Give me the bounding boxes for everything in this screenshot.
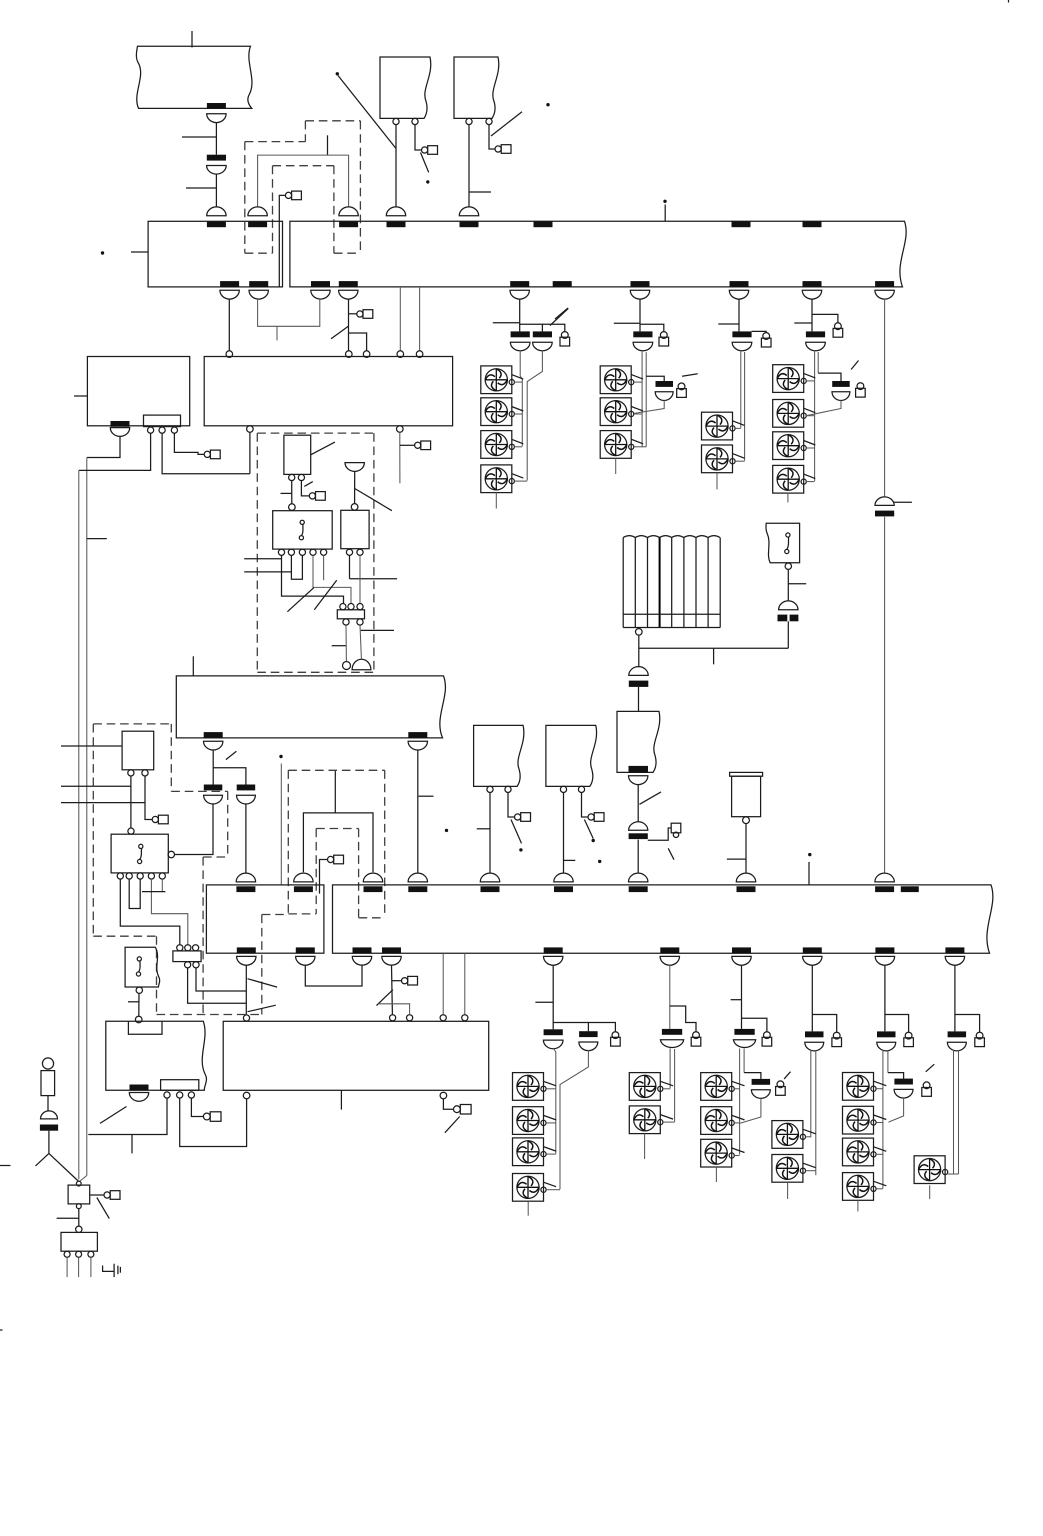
branch to F4 operator [812,314,838,322]
annotation dot near T2 [546,103,549,106]
wire terminal t3 to operator [174,433,204,454]
wire SW2 to MCC2 [138,993,140,1016]
condenser fan M9-1 [843,1073,874,1101]
wire F1b to operator [145,776,152,820]
annotation slash on P1b wire [304,482,313,487]
padlocked operator B5 [905,1032,912,1039]
padlocked operator F4c [857,383,864,390]
drawout boundary (inner) around bus tie [273,165,334,167]
coil bank lower header line [623,613,720,615]
sub-feeder branch F2c [646,376,664,381]
mid-line breaker on tie line [875,497,894,506]
wire 2b to BUS3 breaker [245,803,247,873]
transformer source box T4 (torn edge) [546,725,597,786]
motor operator T3 [515,814,521,820]
branch to operator on t2 wire [400,444,415,446]
branch to F2 operator [640,324,664,331]
box L terminal 2 [76,1251,82,1257]
condenser fan M4-2 [773,400,804,428]
W1 bottom terminal [785,563,791,569]
fan M3-1 connector [735,427,741,429]
fan M2-3 leader slash [631,439,643,444]
fuse-switch F3 [732,331,751,337]
wire T3 to BUS3 [489,793,491,873]
tick on T4 drop [564,859,576,861]
fan M5-3 leader slash [543,1147,556,1152]
transformer source box T3 (torn edge) [474,725,524,786]
incoming breaker of G1 on BUS1 [207,207,226,216]
wire feeder 0b to MCC2 [391,965,394,1014]
wire inside BUS2-BUS3 corridor [280,764,282,885]
padlocked operator B1 [612,1032,619,1039]
bus-tie breaker B on BUS1B [339,207,358,216]
fan M8-1 leader slash [803,1129,816,1134]
wire T2 to BUS1 [468,125,470,208]
SW1 bottom terminal 5 [159,873,165,879]
MCC2 terminal t2 [390,1015,396,1021]
motor operator on MCC1 t2 wire [415,442,421,448]
wire SW1-5 stub [161,879,163,892]
terminal strip t3 [171,427,177,433]
fan M3-1 leader slash [733,421,745,426]
condenser fan M7-3 [701,1139,732,1167]
isolating link on coil outlet [629,681,649,687]
annotation leader B3c [784,1072,790,1079]
fuse-switch F2c [656,381,674,387]
switch box SW2 (torn right edge) [125,947,160,987]
MCC2 bottom terminal left [243,1092,250,1099]
margin tick left 2 [0,1329,3,1331]
TB2 top terminal 2 [185,945,191,951]
padlocked operator F3 [763,333,770,340]
feeder breaker BUS3B bottom 0b [382,947,401,953]
relay box P2 [273,511,333,549]
wire strip t1 to rail [88,1098,167,1134]
wire P3 to drawout contact [354,472,356,504]
tick on T3 drop [477,828,490,830]
stub below fan bank B1 [527,1201,529,1216]
wire F1a to switch box SW1 [130,776,132,828]
fan M8-2 connector [806,1170,816,1172]
motor operator of T1 breaker [422,147,428,153]
fuse-switch F1a [511,331,530,337]
fuse-switch B6 [948,1031,967,1037]
tick mark on T2 drop [469,191,491,193]
TB1 bottom terminal 1 [343,619,349,625]
fan M4-4 connector [806,481,815,483]
tick into enclosure lower [244,571,291,573]
tick left of P2 terminal [281,492,292,494]
fuse-switch B5 [877,1031,896,1037]
terminal of T2 (right) [486,118,492,124]
auxiliary panel AUX2 (torn right edge) [106,1021,207,1090]
terminal MCC1 bottom t2 [397,426,404,433]
fan M9-2 leader slash [874,1115,887,1120]
annotation leader below T1 operator [421,153,429,173]
annotation dot above BUS3 stub [808,853,811,856]
annotation leader b [248,1005,276,1012]
feeder breaker BUS2 right [408,732,427,738]
annotation leader a [248,979,278,987]
wire F3 feeder [738,299,740,332]
transformer source box E1 (torn edge) [617,711,660,772]
branch to B2 operator [670,1006,696,1032]
P3 bottom terminal 2 [357,549,363,555]
annotation slash box K [97,1198,110,1219]
annotation slash A [287,588,313,612]
padlocked operator B4 [833,1032,840,1039]
tick into enclosure upper [244,558,281,560]
padlocked operator F2 [660,332,667,339]
T4 terminal left [560,786,566,792]
wire P1b to operator [301,481,309,496]
P2 bottom terminal 4 [310,549,316,555]
incoming breaker T4 on BUS3 [554,873,573,882]
fan M8-2 leader slash [803,1163,816,1168]
stub below fan bank B5 [857,1200,859,1211]
stub below fan bank F2 [615,458,617,474]
condenser fan M4-3 [773,432,804,460]
branch to B6 operator [955,1015,980,1033]
MCC2 terminal from feeder1 [243,1015,249,1021]
annotation slash on feeder 0b [377,990,393,1006]
TB1 bottom terminal 2 [357,619,363,625]
condenser fan M1-1 [481,366,512,394]
feeder breaker BUS3B for fan bank B5 [875,947,894,953]
tick right through enclosure [350,578,398,580]
AUX2 strip terminal 2 [177,1092,183,1098]
terminal strip t2 [159,427,165,433]
terminal MCC1 top t5 [416,351,423,358]
T3 terminal left [487,786,493,792]
wire BUS1B feeder2 to MCC1 [348,299,350,351]
trunk wires B4 [810,1050,812,1137]
wire T3 operator branch [508,793,515,818]
branch to padlock operator E1 [648,828,671,840]
motor operator on feeder2 [357,311,363,317]
trunk wire F1b down [527,350,542,480]
lower bus-tie link [303,813,373,872]
incoming breaker from BUS2 right on BUS3B [408,873,427,882]
SW2 bottom terminal [136,987,142,993]
wire T2 auxiliary to operator [489,125,495,149]
feeder breaker BUS3A bottom 2 [296,947,315,953]
condenser fan M5-2 [513,1107,544,1135]
wire strip t2 to MCC2 bottom [180,1098,247,1146]
fan M5-4 connector [546,1189,560,1191]
fan M7-2 connector [734,1122,739,1124]
switchgear BUS3 section B (torn right edge) [333,885,993,953]
fan M1-1 connector [514,381,522,383]
stub below fan bank F1 [495,493,497,509]
terminal MCC1 bottom t1 [247,426,254,433]
fan M4-2 connector [806,415,815,417]
P3 bottom terminal 1 [346,549,352,555]
TB2 top terminal 3 [193,945,199,951]
operator lead on feeder 0b [392,980,402,982]
MCC2 left top terminal [135,1016,142,1023]
tie line wire lower [884,517,886,873]
wire TB2-2 link [196,968,246,991]
control cabinet boundary (dashed) left [93,723,171,725]
wire incoming stub to utility source G1 [191,31,193,48]
drawout contact below E1 [629,776,648,785]
loop wire P2-2 P2-3 [291,555,302,579]
feeder breaker BUS1B for tie line [875,281,894,287]
fuse-switch B1b [579,1031,598,1037]
wire T4 to BUS3 [563,793,565,873]
trunk wire B1a [553,1048,556,1154]
earthing switch box K [68,1185,90,1204]
feeder breaker BUS1A bottom 2 [249,281,268,287]
wire P2-5 stub [323,555,325,580]
wire left chain down [48,1131,50,1154]
annotation dot T4 [592,839,595,842]
condenser fan M4-4 [773,465,804,493]
annotation dot above stub [663,200,666,203]
terminal MCC1 top t2 [346,351,353,358]
trunk wires B6 [953,1050,955,1174]
feeder breaker BUS3B for fan bank B6 [945,947,964,953]
feeder breaker BUS1B for fan bank F4 [803,281,822,287]
incoming breaker from BUS2 left on BUS3A [236,873,255,882]
wire F1 feeder [519,299,521,332]
lower tie stub [276,326,278,340]
terminal block TB1 [337,610,364,619]
feeder breaker BUS3B for fan bank B3 [732,947,751,953]
fuse-switch B2 [662,1029,682,1035]
trunk wires B2 [669,1048,671,1088]
trunk wire F1a down [520,350,522,446]
fan M5-1 leader slash [543,1081,556,1086]
feeder breaker BUS2 left [204,732,223,738]
branch to terminal t3 [349,333,367,351]
TB2 bottom terminal 1 [185,962,191,968]
drawout contact left chain [41,1111,58,1119]
incoming breaker of T2 on BUS1 [459,207,478,216]
fan M4-1 connector [806,380,815,382]
wire BUS2 right feeder to BUS3 [417,750,419,873]
stub below rail link [131,1135,133,1154]
wire AUX1 breaker to rail R2 [87,436,120,457]
trunk wires B3 [739,1049,741,1155]
wire TB1-2 to BUS2 contact [360,625,361,659]
annotation slash F1b [550,308,568,325]
condenser fan M8-2 [772,1155,803,1183]
wire BUS3B to MCC2 t5 [464,953,466,1014]
distribution board BUS2 (torn right edge) [176,676,445,738]
feeder breaker BUS3B for fan bank B2 [660,947,679,953]
terminal strip under AUX2 [161,1080,199,1091]
padlocked operator B5c [923,1082,930,1089]
fan M9-1 connector [876,1088,883,1090]
box L terminal 3 [88,1251,94,1257]
condenser fan M2-3 [600,431,631,459]
wire F4c to fan M4-2 [806,400,841,415]
wire L2 down [78,1257,80,1277]
condenser fan M1-4 [481,465,512,493]
SW1 bottom terminal 3 [137,873,143,879]
wire box K to box L [78,1209,80,1226]
fan M9-2 connector [876,1122,883,1124]
AUX2 strip terminal 1 [164,1092,170,1098]
annotation slash below AUX2 breaker [100,1107,127,1124]
annotation leader T3 [511,820,522,844]
TB1 top terminal 2 [348,604,354,610]
transformer source box T1 [380,57,431,118]
box L top terminal [76,1226,82,1232]
wire G1 drop lower [215,174,217,207]
AUX2 strip terminal 3 [188,1092,194,1098]
annotation leader F4c [851,361,858,370]
condenser fan M3-2 [702,445,733,473]
tick on F4 feeder [794,322,812,324]
control transformer box P1 [284,435,311,474]
feeder breaker BUS3B for fan bank B1 [544,947,563,953]
tick left of BUS2 entry [332,645,347,647]
wire BUS3A feeder1 to MCC2 [245,965,247,1014]
spare tap on BUS1B top 2 [732,221,751,227]
fuse-switch B5c [894,1079,913,1085]
branch to B5 operator [885,1015,909,1033]
switchgear BUS3 section A [206,885,324,953]
stub on BUS2 top [192,656,194,676]
capacitor tank body [732,776,761,817]
annotation slash on E1 drop [640,792,662,804]
wire TB2-1 to MCC2 terminal [188,968,247,1003]
wire BUS3B to MCC2 t4 [442,953,444,1014]
fan M9-4 connector [876,1188,883,1190]
incoming breaker tie line on BUS3 [875,873,894,882]
switch contact inside W1 [786,533,790,537]
T4 terminal right [578,786,584,792]
box K operator lead [90,1194,104,1196]
wire BUS1B to MCC1 t5 [419,287,421,351]
condenser fan M6-2 [629,1106,660,1134]
tick on F1 feeder [493,322,520,324]
feeder breaker below AUX2 [130,1085,149,1091]
evaporator coil bank (hatched) [623,538,720,628]
wire into MCC2 t3 [378,1004,410,1015]
fan M9-4 leader slash [874,1181,887,1186]
feeder breaker BUS1B for fan bank F2 [631,281,650,287]
wire F2 feeder [639,299,641,332]
condenser fan M7-1 [701,1073,732,1101]
fan M7-2 leader slash [732,1115,745,1120]
fuse-switch 2b [237,785,256,791]
tick on F3 feeder [718,323,739,325]
fuse-switch B3 [734,1029,754,1035]
wire P2-1 to block TB1 [282,555,344,603]
fuse-switch F4c [832,381,850,387]
annotation leader B5c [926,1064,935,1072]
fan M2-3 connector [634,446,646,448]
fan M1-2 leader slash [512,407,524,412]
lower bus-tie breaker B on BUS3B [363,873,382,882]
tick on B3 feeder [731,999,742,1001]
terminal MCC1 top t4 [397,351,404,358]
margin tick top right [1008,0,1010,3]
branch to B4 operator [812,1015,836,1033]
fan M7-3 connector [734,1155,739,1157]
annotation leader near source T2 [491,112,522,136]
branch link to second fuse [213,768,246,785]
condenser fan M10-1 [914,1156,945,1184]
fuse-switch B3c [752,1079,771,1085]
bus-tie link BUS1A-BUS1B [258,155,349,207]
wire B3 feeder [741,965,743,1029]
wire MCC1 bottom t2 to operator [399,432,401,483]
fan M1-3 leader slash [512,439,524,444]
relay box P3 [341,510,369,548]
control enclosure boundary (dashed) [257,432,374,434]
fan M7-1 connector [734,1088,739,1090]
capacitor tank lid [730,772,763,776]
tick on tank drop [727,858,746,860]
spare tap on BUS1B top 1 [534,221,553,227]
terminal block TB2 [173,951,201,962]
box L terminal 1 [64,1251,70,1257]
drawout boundary (outer) lower tie [288,769,384,771]
wire P3-2 to block TB1 [359,555,361,603]
wire W1 to header branch [787,621,789,648]
feeder breaker BUS1B bottom 2 [339,281,358,287]
fan M1-2 connector [514,413,522,415]
annotation dot left of source T3 [445,829,448,832]
P2 bottom terminal 5 [321,549,327,555]
lower bus-tie operator lead [320,860,328,894]
box K top terminal [76,1181,81,1186]
rail R2 end bend [80,1176,87,1182]
stub below header branch [713,648,715,664]
wire coil bank outlet [638,635,640,667]
wire T1 to BUS1 [395,125,397,208]
motor operator T4 [588,814,594,820]
wire B5c to fan M9-2 [888,1097,903,1122]
annotation dot T4 lower [598,860,601,863]
padlocked operator B3c [777,1081,784,1088]
wire TB1-1 to BUS2 terminal [345,625,347,661]
branch to B3 operator [742,1018,767,1031]
branch to earth box [49,1153,78,1181]
fan M5-4 leader slash [543,1182,556,1187]
incoming breaker tank on BUS3 [736,873,755,882]
annotation leader right of P3 [355,489,392,511]
stub below fan bank B6 [929,1185,931,1199]
wire G1 drop [215,123,217,155]
annotation slash MCC2 right [445,1117,460,1133]
tick on mid-line breaker [894,501,912,503]
wire BUS1A feeder1 to MCC1 [228,299,230,351]
fuse-switch F2 [633,331,652,337]
SW1 bottom terminal 1 [117,873,123,879]
padlocked operator B3 [764,1032,771,1039]
annotation leader from P1 [311,442,335,455]
motor control center MCC1 [204,357,452,426]
fan M3-2 connector [735,460,744,462]
terminal of T2 (left) [466,118,472,124]
operator branch on feeder2 [349,313,357,315]
sub-feeder branch F4c [818,373,841,381]
utility source box G1 (torn-edge continuation) [136,46,252,108]
double isolating link on W1 drop [778,615,788,622]
fuse-switch 2a [204,785,223,791]
branch to B1b [553,1023,588,1032]
fan M1-4 connector [514,480,527,482]
padlocked operator F4 [835,323,842,330]
switch contact inside P2 [300,520,304,524]
SW1 side terminal [168,851,174,857]
